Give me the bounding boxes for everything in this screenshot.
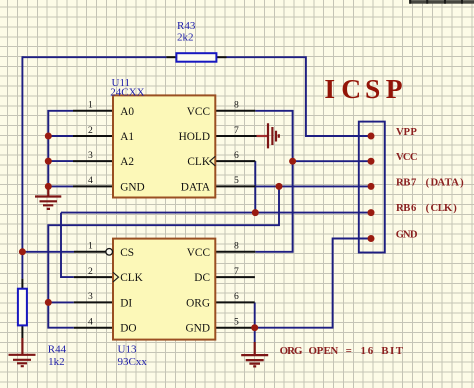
svg-text:A1: A1 (120, 131, 134, 143)
junction left rail / CS branch (19, 248, 26, 255)
wire CS branch from left rail to U13 pin 1 (22, 251, 74, 253)
svg-text:GND: GND (396, 229, 418, 240)
svg-text:3: 3 (88, 291, 93, 302)
header pin 5 GND (368, 235, 375, 242)
svg-text:DO: DO (120, 323, 136, 335)
svg-text:2: 2 (88, 125, 93, 136)
U11 pin 2 line (73, 135, 113, 137)
svg-text:1: 1 (88, 100, 93, 111)
svg-text:A2: A2 (120, 156, 134, 168)
resistor R43 body (176, 53, 216, 62)
U13 pin 1 line (74, 251, 106, 253)
svg-text:1k2: 1k2 (48, 356, 65, 368)
wire U13 DI pin 3 stub to branch (48, 301, 74, 303)
window fragment top-right (409, 0, 474, 4)
svg-text:CLK: CLK (120, 272, 143, 284)
svg-text:HOLD: HOLD (179, 131, 210, 143)
wire U11 pin 4 stub to bus (48, 185, 73, 187)
svg-text:DI: DI (120, 297, 132, 309)
svg-text:7: 7 (234, 266, 239, 277)
U13 pin 4 line (74, 327, 113, 329)
U13 pin 1 CS inversion circle (106, 249, 113, 256)
U13 pin 7 line (DC no-connect) (215, 276, 255, 278)
svg-text:R44: R44 (48, 344, 67, 356)
U11 pin 4 line (73, 185, 113, 187)
svg-text:93Cxx: 93Cxx (118, 356, 148, 368)
wire left rail down to R44 (21, 56, 23, 278)
U13 pin 5 line (215, 327, 254, 329)
wire U11 left bus: pin 1 corner down to ground (48, 111, 73, 189)
svg-text:6: 6 (234, 291, 239, 302)
svg-text:CS: CS (120, 247, 134, 259)
resistor R44 body (18, 289, 27, 326)
junction U11 pin 4 / left bus (45, 183, 52, 190)
svg-text:VPP: VPP (396, 127, 417, 138)
IC U11 24CXX body (113, 95, 215, 197)
wire VPP net: R43 right pin to header VPP pin (227, 57, 372, 136)
ground G3 below U13 GND pin (241, 342, 268, 366)
ground G1 below U11 left bus (35, 188, 61, 209)
U13 pin 3 line (74, 301, 113, 303)
svg-text:3: 3 (88, 150, 93, 161)
wire U13 ORG pin 6 down to GND net (254, 302, 256, 342)
U13 pin 2 CLK edge-trigger mark (113, 272, 119, 282)
resistor R43 pin left (166, 56, 176, 58)
svg-text:5: 5 (234, 317, 239, 328)
ground G4 rotated, at U11 HOLD pin 7 (257, 123, 279, 148)
svg-text:24CXX: 24CXX (110, 86, 144, 98)
wire U11 pin 2 stub to bus (48, 135, 73, 137)
svg-text:2: 2 (88, 266, 93, 277)
svg-text:VCC: VCC (187, 247, 210, 259)
wire RB7 (DATA) net: U11 pin 5 to header (255, 185, 371, 187)
wire VCC net: U11 pin 8 down to U13 pin 8 (255, 111, 292, 252)
svg-text:RB6(CLK): RB6(CLK) (396, 203, 457, 214)
svg-text:4: 4 (88, 317, 93, 328)
wire VPP net: left rail to R43 left pin (22, 56, 166, 58)
svg-text:CLK: CLK (187, 156, 210, 168)
svg-text:4: 4 (88, 175, 93, 186)
svg-text:U13: U13 (118, 344, 137, 356)
wire RB6 net riser to U13 CLK pin 2 (61, 213, 74, 278)
header pin 3 RB7 (368, 183, 375, 190)
U11 pin 3 line (73, 160, 113, 162)
svg-text:RB7(DATA): RB7(DATA) (396, 177, 464, 188)
U11 pin 8 line (215, 110, 255, 112)
svg-text:GND: GND (120, 181, 144, 193)
IC U13 93Cxx body (113, 239, 215, 340)
U11 pin 6 line (215, 160, 255, 162)
header pin 1 VPP (368, 133, 375, 140)
svg-text:6: 6 (234, 150, 239, 161)
ground G2 below R44 (9, 338, 36, 366)
wire U11 pin 3 stub to bus (48, 160, 73, 162)
U13 pin 2 line (74, 276, 113, 278)
U11 pin 1 line (73, 110, 113, 112)
junction U11 pin 3 / left bus (45, 158, 52, 165)
svg-text:VCC: VCC (187, 106, 210, 118)
U13 pin 6 line (215, 301, 254, 303)
wire U11 CLK pin 6 down to RB6 net (254, 161, 256, 213)
U13 pin 8 line (215, 251, 255, 253)
svg-text:1: 1 (88, 241, 93, 252)
svg-text:GND: GND (186, 323, 210, 335)
junction U11 pin 2 / left bus (45, 133, 52, 140)
svg-text:8: 8 (234, 241, 239, 252)
junction U13 GND / ORG / ground (251, 324, 258, 331)
wire VCC net: junction to header VCC pin (293, 160, 371, 162)
svg-text:7: 7 (234, 125, 239, 136)
junction RB7 net branch (276, 183, 283, 190)
junction U11 CLK / RB6 net (252, 209, 259, 216)
svg-text:ORG: ORG (186, 297, 210, 309)
resistor R44 pin bottom (21, 325, 23, 338)
svg-text:VCC: VCC (396, 152, 417, 163)
svg-text:R43: R43 (177, 20, 196, 32)
U11 pin 7 line (215, 135, 256, 137)
wire RB6 (CLK) net row to header (61, 212, 371, 214)
U11 pin 5 line (215, 185, 255, 187)
svg-text:8: 8 (234, 100, 239, 111)
svg-text:DC: DC (194, 272, 210, 284)
svg-text:2k2: 2k2 (177, 32, 194, 44)
header pin 4 RB6 (368, 209, 375, 216)
resistor R44 pin top (21, 279, 23, 289)
svg-text:5: 5 (234, 175, 239, 186)
resistor R43 pin right (217, 56, 227, 58)
svg-text:A0: A0 (120, 106, 134, 118)
connector ICSP header body (359, 122, 385, 253)
svg-text:DATA: DATA (181, 181, 211, 193)
junction VCC net (289, 158, 296, 165)
U11 pin 6 CLK edge-trigger mark (210, 156, 216, 166)
junction U13 DI / RB7 branch (45, 299, 52, 306)
wire RB7 net branch down and across to U13 DO pin 4 (48, 186, 279, 327)
header pin 2 VCC (368, 158, 375, 165)
wire GND net: U13 pin 5 to header GND pin (255, 239, 371, 328)
